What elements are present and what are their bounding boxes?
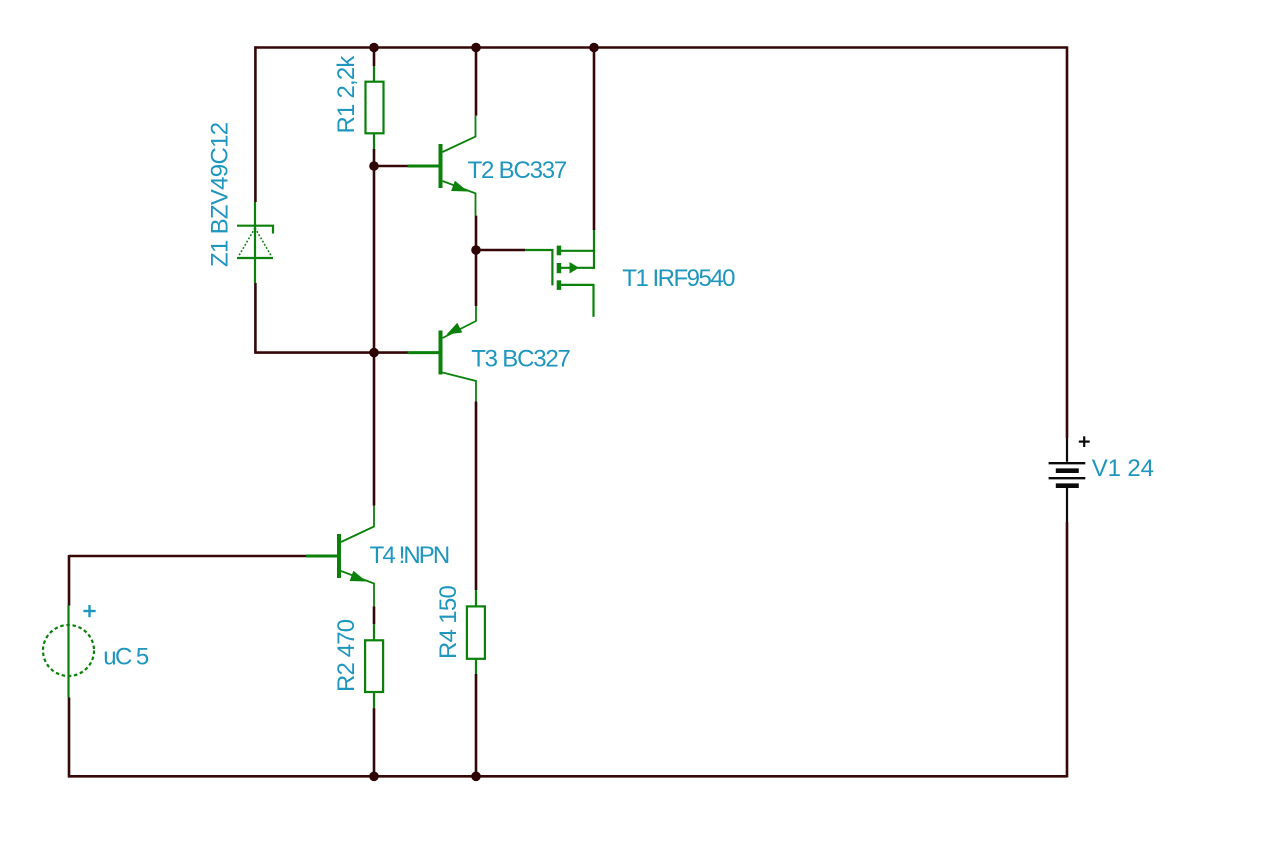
wire bottom rail xyxy=(68,775,1067,778)
svg-text:R4 150: R4 150 xyxy=(435,585,462,659)
wire left zener branch lower xyxy=(254,283,257,353)
transistor T2 collector diagonal xyxy=(443,116,476,152)
mosfet T1 gate wire green xyxy=(525,249,552,251)
voltage source uC plus sign xyxy=(83,605,95,617)
svg-text:R2 470: R2 470 xyxy=(333,619,360,692)
resistor R2 body xyxy=(365,640,383,692)
mosfet T1 channel bar top xyxy=(557,246,562,256)
transistor T4 collector diagonal xyxy=(341,506,374,543)
transistor T3 emitter arrow xyxy=(447,323,463,335)
resistor R4 bottom lead xyxy=(475,659,477,674)
wire node C to T3 emitter xyxy=(475,250,478,306)
battery V1 plate thin 2 xyxy=(1049,477,1086,479)
wire R4 bottom xyxy=(475,674,478,776)
resistor R2 bottom lead xyxy=(373,692,375,708)
mosfet T1 source stub down xyxy=(592,284,594,317)
node C junction dot T2/T3/gate xyxy=(471,245,481,255)
wire T2 emitter to node C xyxy=(475,216,478,250)
node junction dot bottom R4 xyxy=(471,772,481,782)
wire top rail xyxy=(255,46,1067,49)
svg-text:T3 BC327: T3 BC327 xyxy=(471,346,570,373)
wire uC to T4 base xyxy=(69,555,306,558)
svg-text:V1 24: V1 24 xyxy=(1092,455,1154,482)
transistor T4 emitter arrow xyxy=(350,571,367,582)
resistor R1 top lead xyxy=(373,66,375,82)
svg-text:T4 !NPN: T4 !NPN xyxy=(370,542,449,569)
wire uC top column xyxy=(68,555,71,606)
wire T2 base xyxy=(374,165,408,168)
mosfet T1 body line with arrow xyxy=(561,267,594,269)
transistor T4 base lead xyxy=(306,555,337,558)
wire zener to node B horizontal xyxy=(254,351,374,354)
mosfet T1 body arrow xyxy=(570,262,580,274)
mosfet T1 channel bar middle xyxy=(557,263,562,273)
zener diode Z1 dotted triangle right side xyxy=(255,228,271,256)
zener diode Z1 lead xyxy=(254,202,256,283)
transistor T3 emitter diagonal upper xyxy=(443,306,477,338)
zener diode Z1 dotted triangle left side xyxy=(239,228,255,256)
resistor R1 body xyxy=(366,82,384,134)
transistor T2 bar xyxy=(439,144,443,188)
mosfet T1 source horizontal xyxy=(561,284,594,286)
wire right rail lower xyxy=(1066,522,1069,777)
wire T4 emitter to R2 xyxy=(373,607,376,625)
wire T3 base xyxy=(374,351,408,354)
battery V1 plate thick 2 xyxy=(1056,483,1079,488)
wire T2 collector column xyxy=(475,47,478,116)
node junction dot bottom R2 xyxy=(369,772,379,782)
resistor R4 top lead xyxy=(475,590,477,607)
zener diode Z1 anode base line xyxy=(237,257,273,259)
transistor T2 emitter arrow xyxy=(451,181,468,192)
transistor T2 emitter diagonal xyxy=(443,181,476,216)
node A junction dot R1/T2 base xyxy=(369,161,379,171)
resistor R1 bottom lead xyxy=(373,133,375,149)
wire node A to node B vertical xyxy=(373,166,376,353)
svg-text:T1 IRF9540: T1 IRF9540 xyxy=(622,265,735,292)
battery V1 top lead xyxy=(1066,438,1068,462)
wire R1 bottom to node A xyxy=(373,149,376,166)
resistor R2 top lead xyxy=(373,624,375,641)
voltage source uC lead through xyxy=(67,606,69,698)
svg-text:uC 5: uC 5 xyxy=(103,643,149,670)
transistor T4 emitter diagonal xyxy=(341,571,374,607)
mosfet T1 body vertical join xyxy=(593,250,595,269)
wire R1 top xyxy=(373,48,376,67)
mosfet T1 drain stub up xyxy=(593,229,595,252)
wire T3 collector to R4 xyxy=(475,402,478,591)
transistor T3 collector diagonal lower xyxy=(443,373,477,402)
transistor T3 bar xyxy=(439,331,443,375)
battery V1 plate thin 1 xyxy=(1049,462,1086,464)
mosfet T1 drain horizontal xyxy=(561,250,594,252)
voltage source uC dashed circle xyxy=(43,625,94,676)
mosfet T1 gate bar xyxy=(551,249,553,285)
transistor T3 base lead xyxy=(408,351,439,354)
wire node B to T4 collector xyxy=(373,353,376,506)
svg-text:T2 BC337: T2 BC337 xyxy=(468,157,567,184)
wire uC bottom column xyxy=(68,698,71,778)
node B junction dot zener/T3 base xyxy=(369,348,379,358)
wire left zener branch upper xyxy=(254,46,257,202)
battery V1 bottom lead xyxy=(1066,487,1068,523)
svg-text:R1 2,2k: R1 2,2k xyxy=(333,55,360,134)
mosfet T1 channel bar bottom xyxy=(557,280,562,290)
zener diode Z1 cathode bar with hook xyxy=(237,226,273,234)
transistor T2 base lead xyxy=(408,165,439,168)
wire right rail upper xyxy=(1066,46,1069,438)
battery V1 plus sign xyxy=(1079,436,1090,447)
battery V1 plate thick 1 xyxy=(1056,468,1079,473)
wire R2 bottom xyxy=(373,708,376,776)
resistor R4 body xyxy=(467,606,485,658)
wire node C to T1 gate xyxy=(476,249,525,252)
svg-text:Z1 BZV49C12: Z1 BZV49C12 xyxy=(207,122,234,267)
node junction dot top R1 xyxy=(369,43,379,53)
wire T1 drain column maroon xyxy=(593,48,596,231)
transistor T4 bar xyxy=(337,534,341,578)
node junction dot top T1 xyxy=(589,43,599,53)
node junction dot top T2 xyxy=(471,43,481,53)
